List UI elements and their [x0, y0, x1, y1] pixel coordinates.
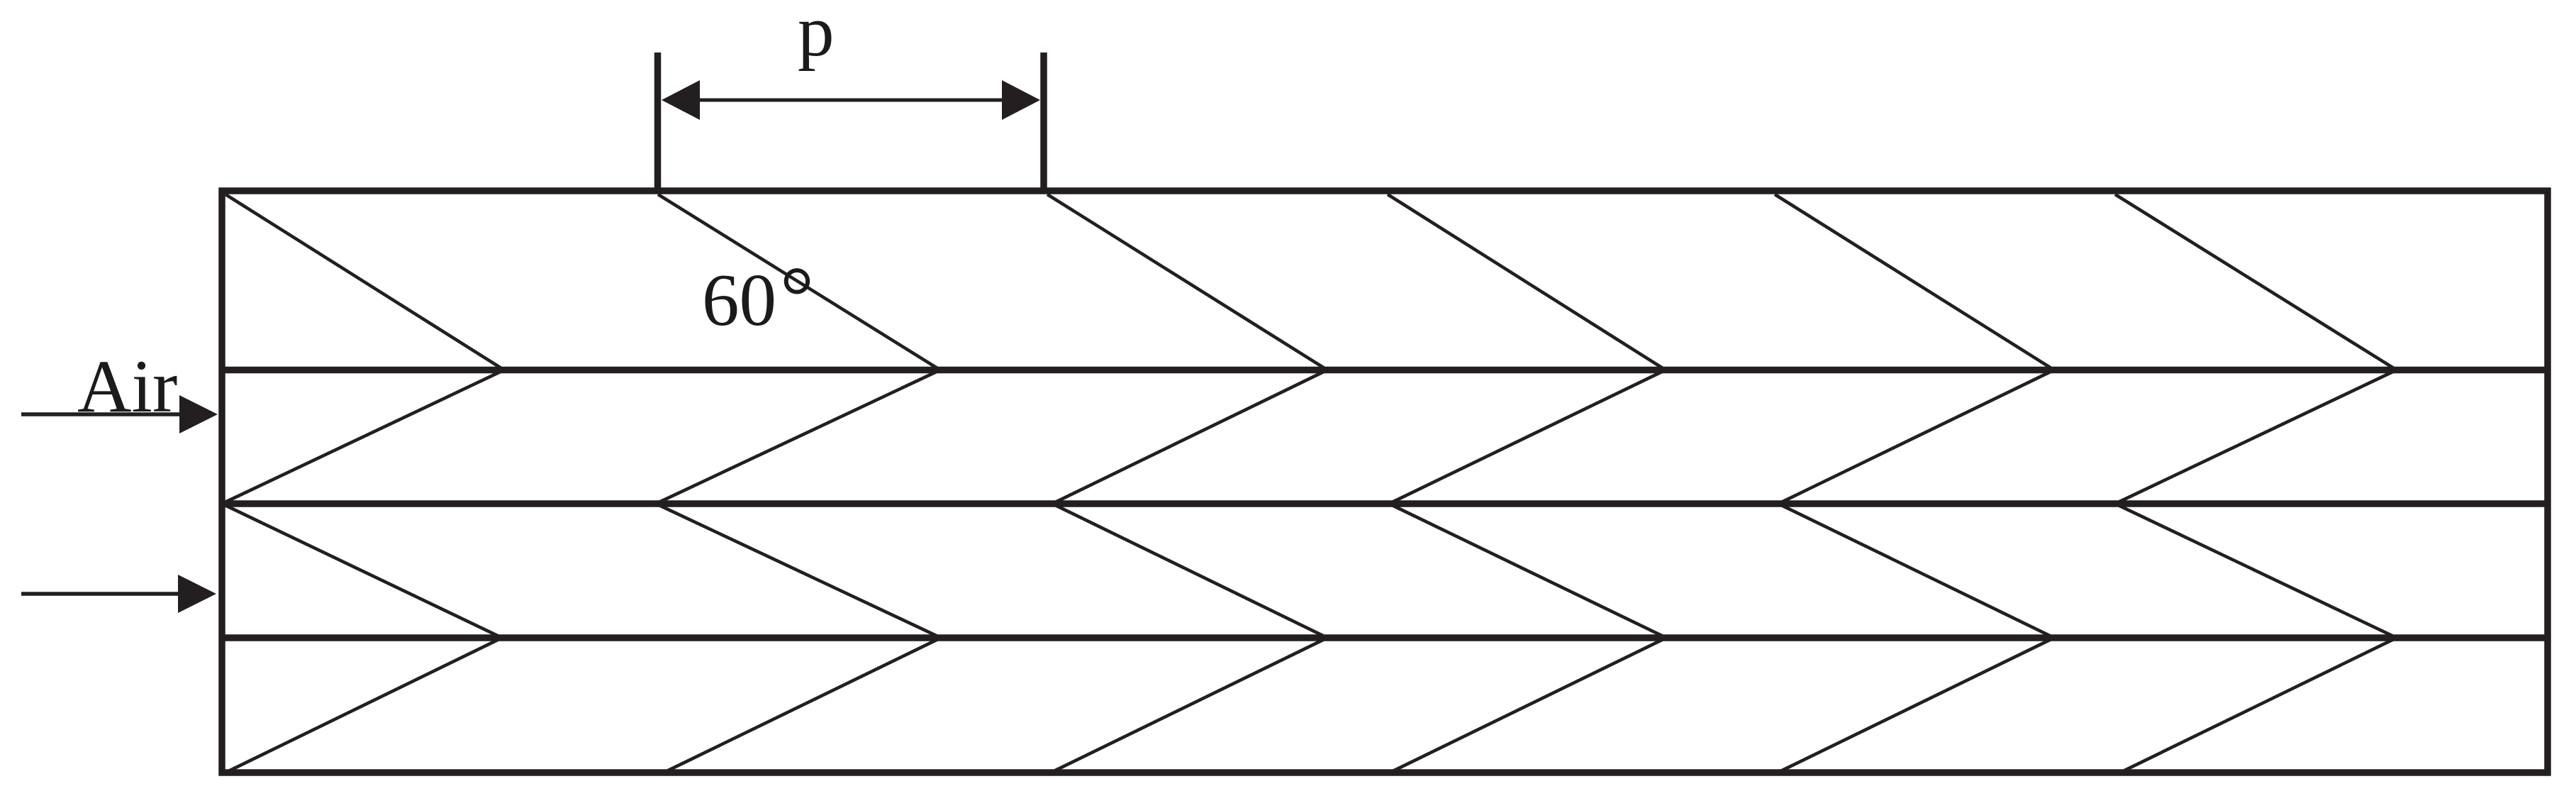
- svg-text:°: °: [780, 249, 814, 343]
- svg-text:60: 60: [702, 258, 776, 341]
- svg-text:p: p: [798, 0, 835, 72]
- svg-text:Air: Air: [77, 345, 177, 428]
